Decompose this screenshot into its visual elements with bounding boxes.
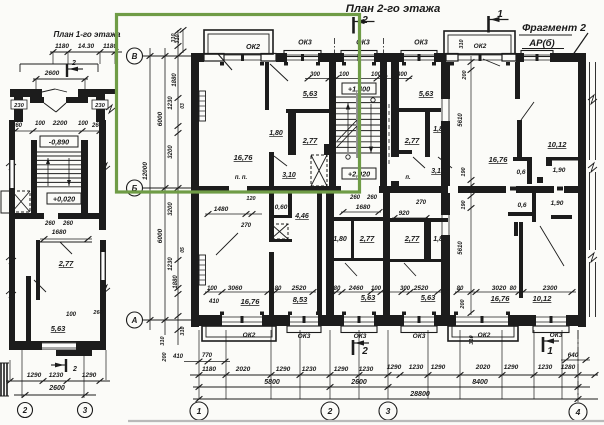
stair arrow up line	[347, 103, 349, 152]
sill niche left wall lower	[199, 255, 206, 285]
door swing fragment room	[521, 102, 534, 120]
pier bath bottom-right	[324, 144, 330, 155]
svg-text:1290: 1290	[387, 364, 402, 371]
svg-text:2,77: 2,77	[58, 259, 74, 268]
svg-text:190: 190	[461, 200, 467, 209]
wall 16,76|8,53 lower	[269, 252, 274, 315]
right exterior wall main	[578, 53, 586, 327]
axis circle B	[127, 180, 143, 196]
shaft xbox bottom unit1	[271, 224, 288, 239]
left-plan top dim line	[50, 51, 122, 53]
bottom dim line 3	[193, 398, 598, 400]
axis circle 1	[190, 402, 208, 420]
svg-text:2600: 2600	[350, 379, 367, 386]
bath block bottom R	[390, 259, 448, 262]
svg-text:260: 260	[92, 310, 102, 316]
svg-text:В: В	[132, 52, 138, 61]
svg-text:1,80: 1,80	[269, 130, 283, 137]
section mark 2 bottom	[352, 340, 355, 355]
break marks right edge mid	[101, 163, 110, 171]
corridor middle wall	[191, 186, 229, 193]
svg-text:10,12: 10,12	[548, 140, 568, 149]
svg-text:200: 200	[162, 352, 168, 362]
svg-text:2020: 2020	[475, 364, 491, 371]
svg-text:8,53: 8,53	[293, 295, 308, 304]
svg-text:1680: 1680	[356, 204, 371, 211]
axis line B	[143, 187, 191, 189]
bottom exterior wall	[191, 315, 222, 326]
left-plan top wall step L	[30, 97, 44, 103]
window bottom OK3 3	[404, 316, 434, 318]
closet 1,90 top wall	[546, 157, 578, 161]
svg-text:ОК2: ОК2	[478, 332, 491, 339]
bath 2,77 unit2 right wall	[425, 112, 430, 157]
unit2 kitchen wall vert	[391, 62, 399, 157]
svg-text:16,76: 16,76	[234, 153, 254, 162]
shaft xbox left-plan	[12, 191, 30, 212]
door leaf top R	[55, 89, 67, 92]
partition 2.77 room	[36, 240, 40, 300]
svg-text:5,63: 5,63	[421, 293, 436, 302]
svg-text:1,90: 1,90	[551, 200, 564, 207]
frag closet wall v2	[532, 193, 536, 222]
svg-text:16,76: 16,76	[241, 297, 261, 306]
window bottom OK3	[290, 316, 318, 318]
svg-text:2: 2	[22, 406, 28, 415]
svg-text:310: 310	[160, 336, 166, 345]
corridor door threshold marks	[251, 187, 257, 191]
svg-text:2,77: 2,77	[302, 136, 318, 145]
svg-text:1230: 1230	[538, 364, 553, 371]
svg-text:1230: 1230	[302, 366, 317, 373]
svg-text:100: 100	[78, 121, 89, 127]
closet 1,90 bend	[546, 160, 552, 166]
svg-text:2200: 2200	[52, 120, 68, 127]
svg-text:230: 230	[94, 103, 105, 109]
top exterior wall	[191, 53, 204, 62]
stair rail diag 2	[337, 126, 357, 147]
svg-text:п. п.: п. п.	[235, 175, 248, 181]
svg-text:260: 260	[349, 195, 361, 201]
door gap lines sep wall	[441, 99, 443, 121]
230 labels on piers	[11, 100, 27, 109]
unit sep wall bottom R a	[441, 193, 450, 215]
svg-text:0,60: 0,60	[275, 204, 288, 211]
window bottom OK2 R	[456, 316, 508, 318]
left-plan stair wall L	[31, 140, 37, 215]
window OK2 opening right	[458, 54, 502, 56]
svg-text:1230: 1230	[49, 372, 64, 379]
frag wall h under 1,90	[551, 215, 572, 219]
section mark 1 top	[487, 16, 490, 33]
svg-text:3: 3	[83, 406, 88, 415]
stair treads right flight	[358, 96, 380, 98]
svg-text:1290: 1290	[82, 372, 97, 379]
left-plan edge shaft cell	[1, 191, 12, 213]
axis circle 4	[569, 403, 587, 421]
svg-text:16,76: 16,76	[489, 155, 509, 164]
level mark -0,890	[40, 136, 78, 147]
svg-text:200: 200	[460, 299, 466, 309]
svg-text:Фрагмент 2: Фрагмент 2	[522, 22, 586, 34]
svg-text:1280: 1280	[561, 364, 576, 371]
svg-text:10,12: 10,12	[533, 294, 553, 303]
svg-text:270: 270	[415, 200, 427, 206]
svg-text:120: 120	[246, 196, 255, 202]
stair arrow dn	[68, 158, 70, 186]
left-plan window sill gaps	[10, 160, 14, 188]
door swing bath unit2	[413, 157, 425, 168]
door swing bath b	[404, 263, 416, 276]
svg-text:ОК3: ОК3	[550, 332, 563, 339]
svg-text:14.30: 14.30	[78, 43, 95, 50]
dim line 12000	[149, 48, 151, 330]
balcony piers outlined top-right	[446, 54, 458, 62]
balcony bottom-right	[448, 326, 518, 341]
door swing bath a	[345, 263, 357, 276]
svg-text:300: 300	[400, 286, 411, 292]
left-plan mid wall R	[58, 213, 106, 219]
wall axis dash-dot stubs above top wall	[334, 38, 336, 62]
closet 0,60 wall bottom	[274, 215, 288, 218]
axis 4 dash-dot	[577, 330, 579, 402]
left-plan dim line 2	[14, 394, 96, 396]
break squiggles on left-plan left wall	[6, 160, 16, 170]
svg-text:1: 1	[547, 346, 553, 357]
left-plan pier L	[14, 97, 23, 122]
dim line 2200	[12, 130, 103, 132]
svg-text:2: 2	[72, 366, 77, 373]
section mark 2 on left plan	[66, 64, 68, 77]
axis circle 3 left-plan	[78, 403, 93, 418]
svg-text:310: 310	[171, 33, 177, 42]
door swing lower	[34, 280, 46, 292]
svg-text:2,77: 2,77	[359, 234, 375, 243]
left exterior wall main	[191, 53, 199, 327]
svg-text:03: 03	[180, 103, 186, 109]
window OK3 opening 3	[404, 54, 434, 56]
section mark 1 bottom	[542, 337, 545, 352]
svg-text:260: 260	[62, 221, 74, 227]
svg-text:2600: 2600	[44, 70, 60, 77]
left-plan parapet line	[20, 63, 98, 65]
svg-text:ОК2: ОК2	[474, 43, 487, 50]
level +1,400	[342, 83, 376, 94]
frag closet wall h under 0,6	[508, 212, 534, 216]
door leaf top L	[42, 89, 55, 92]
wall hall 3,10 left	[269, 152, 274, 186]
left-plan top wall step R	[66, 97, 88, 103]
left-plan top wall R	[78, 89, 105, 97]
svg-text:3200: 3200	[168, 145, 174, 159]
svg-text:3020: 3020	[492, 285, 507, 292]
svg-text:ОК3: ОК3	[413, 333, 426, 340]
svg-text:12000: 12000	[142, 162, 149, 180]
svg-text:2300: 2300	[542, 285, 558, 292]
wall fragment vert upper	[515, 62, 520, 99]
vestibule door swing R	[56, 103, 66, 112]
dim line 6000	[164, 48, 166, 335]
bath 2,77 unit2 floor piece	[394, 150, 412, 154]
axis circle 2 left-plan	[18, 403, 33, 418]
window jamb tabs bottom wall	[220, 312, 224, 316]
wall below shaft	[274, 239, 292, 242]
svg-text:ОК3: ОК3	[298, 40, 312, 47]
window OK2 top-left opening	[224, 54, 261, 56]
svg-text:5,63: 5,63	[303, 89, 318, 98]
wall horiz unit2	[394, 108, 441, 112]
svg-text:6000: 6000	[157, 228, 164, 243]
svg-text:260: 260	[44, 221, 56, 227]
svg-text:410: 410	[172, 354, 184, 360]
svg-text:2,77: 2,77	[404, 234, 420, 243]
svg-text:310: 310	[469, 335, 475, 344]
svg-text:6000: 6000	[157, 111, 164, 126]
window opening right2	[524, 54, 550, 56]
svg-text:1: 1	[197, 406, 202, 416]
green highlight rectangle	[117, 15, 360, 193]
level +2,020	[342, 168, 376, 179]
dim line 2600 span	[33, 78, 88, 80]
svg-text:1230: 1230	[168, 257, 174, 271]
left-plan stair treads	[37, 155, 81, 157]
svg-text:2: 2	[327, 406, 333, 416]
bottom dim line 1	[190, 374, 598, 376]
svg-text:0,6: 0,6	[516, 169, 525, 176]
axis circle 2	[321, 402, 339, 420]
svg-text:2520: 2520	[291, 285, 307, 292]
extension lines bottom	[198, 330, 200, 399]
svg-text:+0,020: +0,020	[53, 195, 75, 204]
balcony top-right	[444, 31, 515, 54]
svg-text:1,80: 1,80	[333, 236, 347, 243]
svg-text:1180: 1180	[55, 43, 69, 50]
svg-text:ОК3: ОК3	[414, 40, 428, 47]
left-plan bottom-left hatch	[0, 363, 2, 396]
left-plan porch bottom	[56, 350, 92, 356]
wall bath unit1 left	[288, 113, 296, 155]
balcony piers outlined top-left	[204, 54, 224, 62]
frag door jamb piece	[514, 222, 518, 236]
vestibule door swing L	[44, 103, 56, 112]
svg-text:1290: 1290	[431, 364, 446, 371]
window bottom OK3 2	[344, 316, 374, 318]
sill boxes above top wall	[284, 51, 321, 57]
svg-text:100: 100	[339, 72, 350, 78]
break marks right wall	[588, 163, 597, 172]
svg-text:1290: 1290	[334, 366, 349, 373]
left-plan bottom wall	[9, 341, 106, 350]
svg-text:300: 300	[310, 72, 321, 78]
wall horiz unit1	[286, 109, 330, 113]
unit separation wall 2-3 upper	[441, 62, 450, 99]
left-plan mid wall L	[9, 213, 44, 219]
svg-text:1,90: 1,90	[553, 167, 566, 174]
svg-text:310: 310	[459, 39, 465, 48]
shaft gap dashed line right of stair	[388, 104, 390, 165]
stair rail diag 1	[337, 120, 357, 141]
svg-text:3200: 3200	[168, 202, 174, 216]
svg-text:410: 410	[208, 299, 220, 305]
door threshold frag	[537, 177, 543, 183]
svg-text:8400: 8400	[472, 379, 488, 386]
section mark 2 top	[352, 17, 355, 34]
bath block top R	[390, 218, 448, 222]
entry closet wall v upper	[269, 193, 274, 242]
unit separation wall 2-3 lower	[441, 121, 450, 186]
svg-text:1230: 1230	[409, 364, 424, 371]
wall kitchen unit1	[265, 62, 269, 110]
svg-text:2600: 2600	[48, 385, 65, 392]
svg-text:ОК3: ОК3	[354, 333, 367, 340]
door swing entry	[216, 233, 238, 255]
partition top 2.77	[40, 241, 92, 243]
svg-text:1290: 1290	[27, 372, 42, 379]
svg-text:2020: 2020	[235, 366, 251, 373]
partition below	[26, 276, 31, 341]
svg-text:5,63: 5,63	[51, 324, 66, 333]
window bottom OK3 R	[536, 316, 566, 318]
wall fragment vert lower	[517, 120, 522, 158]
second line right wall	[589, 172, 591, 250]
svg-text:2: 2	[71, 60, 76, 67]
svg-text:200: 200	[462, 70, 468, 80]
svg-text:ОК2: ОК2	[246, 42, 260, 51]
axis circle V	[127, 48, 143, 64]
svg-text:1880: 1880	[173, 275, 179, 289]
stairwell wall left	[329, 62, 336, 186]
svg-text:5800: 5800	[264, 379, 280, 386]
door swing frag 10,12	[540, 226, 564, 266]
svg-text:100: 100	[35, 121, 46, 127]
svg-text:п.: п.	[405, 175, 411, 181]
axis line V	[143, 55, 191, 57]
svg-text:1290: 1290	[276, 366, 291, 373]
svg-text:230: 230	[13, 103, 24, 109]
unit sep wall bottom L outer	[326, 193, 334, 315]
svg-text:770: 770	[202, 353, 213, 359]
scan bottom gray line	[128, 420, 604, 422]
window bottom OK2 L	[222, 316, 262, 318]
underline fragment	[519, 34, 572, 36]
svg-text:80: 80	[510, 286, 517, 292]
svg-text:-0,890: -0,890	[49, 138, 69, 147]
svg-text:2: 2	[361, 15, 368, 26]
svg-text:5610: 5610	[458, 241, 464, 255]
dim line interior right	[470, 56, 472, 186]
dim line interior right bottom	[470, 193, 472, 315]
left-plan outer wall left	[9, 120, 15, 213]
svg-text:28800: 28800	[409, 391, 430, 398]
svg-text:План 1-го этажа: План 1-го этажа	[54, 30, 121, 39]
section mark bottom left-plan	[65, 359, 67, 372]
underline AR(b)	[522, 48, 564, 50]
svg-text:1680: 1680	[52, 229, 67, 236]
svg-text:270: 270	[240, 223, 252, 229]
bath partition R dark	[424, 222, 431, 262]
svg-text:1880: 1880	[172, 73, 178, 87]
svg-text:2520: 2520	[413, 285, 429, 292]
svg-text:ОК3: ОК3	[298, 333, 311, 340]
door swing 2,77	[60, 242, 72, 254]
window OK3 opening 2	[344, 54, 374, 56]
ext line left	[21, 350, 23, 398]
stairwell wall right	[380, 62, 387, 186]
axis line A	[143, 319, 191, 321]
svg-text:920: 920	[399, 210, 410, 217]
stair landing line	[37, 151, 81, 153]
left-plan stair wall R	[81, 140, 88, 215]
bath block top L	[334, 217, 383, 221]
svg-text:1230: 1230	[168, 96, 174, 110]
svg-text:3: 3	[386, 406, 391, 416]
left-plan top wall far R stub	[105, 89, 115, 94]
shaft duct unit1	[311, 155, 327, 186]
second line right wall	[589, 262, 591, 317]
left-plan pier R	[96, 97, 105, 122]
svg-text:2: 2	[361, 346, 368, 357]
svg-text:310: 310	[180, 326, 186, 335]
svg-text:1230: 1230	[359, 366, 374, 373]
sill niche left wall upper	[199, 91, 206, 121]
window OK3 opening	[287, 54, 318, 56]
stair arrow up	[47, 158, 49, 186]
balcony bottom-left	[202, 326, 276, 341]
left-plan dim line 1	[6, 380, 110, 382]
svg-text:А: А	[131, 316, 138, 325]
left-plan top wall L	[10, 89, 42, 97]
door swing kitchen1	[270, 64, 288, 81]
break marks right edge top	[106, 105, 115, 113]
svg-text:5,63: 5,63	[419, 89, 434, 98]
stair arrow down line	[370, 104, 372, 153]
svg-text:2,77: 2,77	[404, 136, 420, 145]
balcony top-left	[204, 30, 273, 54]
door swing hall unit2	[438, 157, 452, 168]
left-plan outer wall left lower	[9, 219, 15, 341]
svg-text:16,76: 16,76	[491, 294, 511, 303]
svg-text:100: 100	[66, 312, 77, 318]
svg-text:05: 05	[180, 247, 186, 253]
bottom dim line 2	[193, 386, 590, 388]
left-plan outer wall right lower	[100, 240, 106, 341]
unit sep wall bottom R b	[441, 235, 450, 315]
closet 0,6 top wall	[513, 157, 532, 161]
window jamb tabs top wall	[220, 62, 224, 66]
second line right wall	[589, 62, 591, 160]
unit2 kitchen wall vert b	[391, 181, 399, 186]
door swing hall	[274, 156, 287, 166]
svg-text:ОК2: ОК2	[243, 332, 256, 339]
svg-text:0,6: 0,6	[517, 202, 526, 209]
dim line detail chain	[177, 30, 179, 345]
svg-text:3060: 3060	[228, 285, 243, 292]
door swing room1	[218, 54, 232, 70]
frag partition 16,76|10,12	[519, 222, 523, 298]
stair treads left flight	[336, 96, 356, 98]
svg-text:1290: 1290	[504, 364, 519, 371]
svg-text:1180: 1180	[202, 366, 216, 373]
window sill boxes below bottom wall	[287, 326, 321, 333]
axis circle A	[127, 312, 143, 328]
fragment boundary slash	[570, 33, 588, 59]
svg-text:АР(б): АР(б)	[528, 38, 554, 49]
svg-text:4: 4	[575, 407, 581, 417]
svg-text:5,63: 5,63	[361, 293, 376, 302]
bath block bottom L	[334, 258, 383, 261]
svg-text:260: 260	[366, 195, 378, 201]
svg-text:1: 1	[497, 9, 503, 20]
